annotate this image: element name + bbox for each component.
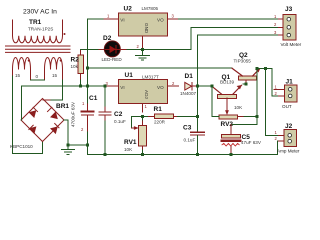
wire D1 cathode junction to RV2 left <box>198 86 220 116</box>
transistor Q1 BD139 <box>212 85 242 115</box>
capacitor C3 0.1uF <box>191 132 205 154</box>
wire output down to RV2 right and C5 <box>231 69 257 125</box>
svg-text:LED-RED: LED-RED <box>102 57 123 62</box>
regulator U1 LM317T <box>110 80 178 113</box>
resistor R1 220R <box>143 114 198 119</box>
wire secondary right 15 down to bridge top <box>50 80 63 100</box>
svg-text:1N4007: 1N4007 <box>180 91 197 96</box>
wire output rail to J3 pin3 <box>198 35 279 132</box>
svg-text:10K: 10K <box>124 147 133 152</box>
svg-text:Amp Meter: Amp Meter <box>277 149 300 154</box>
wire bottom ground rail <box>88 141 279 154</box>
wire bridge right corner to ground rail <box>64 120 88 145</box>
svg-text:10K: 10K <box>234 105 243 110</box>
svg-text:R2: R2 <box>71 57 80 64</box>
resistor R2 <box>78 49 84 86</box>
svg-text:TR1: TR1 <box>29 19 42 26</box>
wire bridge top stub <box>43 99 50 101</box>
wire Q1 emitter to Q2 base <box>243 83 246 85</box>
svg-text:VI: VI <box>120 18 124 23</box>
capacitor C1 4700uF <box>82 86 94 145</box>
capacitor C5 47uF <box>222 125 241 155</box>
svg-text:TIP3055: TIP3055 <box>234 59 252 64</box>
svg-text:47uF 63V: 47uF 63V <box>241 140 262 145</box>
svg-text:R1: R1 <box>154 106 163 113</box>
svg-text:LM7805: LM7805 <box>142 6 159 11</box>
connector J1 OUT <box>274 85 297 102</box>
svg-text:BR1: BR1 <box>56 103 69 110</box>
wire U2 VO to J3 pin1 <box>178 18 278 20</box>
svg-text:15: 15 <box>15 73 21 78</box>
diode BR1 bottom-right <box>51 127 57 133</box>
wire Q2 emitter to output <box>257 68 272 70</box>
wire gnd to J3 pin2 <box>143 27 279 49</box>
diode BR1 top-left <box>30 111 36 117</box>
svg-text:10k: 10k <box>71 64 79 69</box>
transistor Q2 TIP3055 <box>232 68 260 84</box>
potentiometer RV1 10K <box>131 116 146 154</box>
svg-text:D1: D1 <box>185 73 194 80</box>
wire center tap join <box>31 79 45 81</box>
bridge rectifier BR1 <box>21 99 64 142</box>
wire R2 top to LED <box>81 48 100 50</box>
wire long feed to Q2 collector <box>88 67 233 69</box>
connector J2 Amp Meter <box>278 129 296 146</box>
wire bridge left corner up to main rail <box>22 86 106 120</box>
svg-text:J1: J1 <box>286 79 294 86</box>
capacitor C2 0.1uF <box>99 86 111 154</box>
wire LED cathode to gnd junction <box>120 48 127 50</box>
svg-text:C3: C3 <box>183 125 192 132</box>
svg-text:LM317T: LM317T <box>142 75 159 80</box>
svg-text:OUT: OUT <box>282 104 292 109</box>
svg-text:0.1uF: 0.1uF <box>184 138 196 143</box>
diode BR1 top-right <box>51 112 57 118</box>
svg-text:U2: U2 <box>124 6 133 13</box>
wire emitter to J2 pin1 <box>266 69 279 136</box>
svg-text:J3: J3 <box>285 6 293 13</box>
ground symbol under U2 <box>136 49 150 60</box>
connector J3 Volt Meter <box>278 15 296 41</box>
diode D1 1N4007 <box>185 82 197 90</box>
svg-text:VO: VO <box>157 85 164 90</box>
regulator U2 LM7805 <box>104 13 178 48</box>
ground symbol under bridge <box>62 145 75 154</box>
svg-text:GND: GND <box>144 23 149 34</box>
svg-text:KBPC1010: KBPC1010 <box>10 144 33 149</box>
svg-text:TRAN-1P2S: TRAN-1P2S <box>28 27 53 32</box>
svg-text:U1: U1 <box>125 72 134 79</box>
svg-text:D2: D2 <box>103 35 112 42</box>
svg-text:Volt Meter: Volt Meter <box>281 42 302 47</box>
wire secondary left 15 down to bridge bottom <box>13 76 43 154</box>
svg-text:VO: VO <box>157 18 164 23</box>
transformer TR1 <box>6 20 71 80</box>
wire emitter to J1 pin2 <box>272 69 278 96</box>
svg-text:0: 0 <box>36 74 39 79</box>
potentiometer RV2 10K <box>212 115 257 119</box>
svg-text:4700uF 63V: 4700uF 63V <box>71 101 76 127</box>
svg-text:J2: J2 <box>285 123 293 130</box>
wire rail into U1 VI <box>105 85 110 87</box>
svg-text:VI: VI <box>120 85 124 90</box>
svg-text:230V AC In: 230V AC In <box>23 8 57 15</box>
svg-text:C2: C2 <box>114 111 123 118</box>
svg-text:BD139: BD139 <box>220 80 234 85</box>
svg-text:RV1: RV1 <box>124 139 137 146</box>
svg-text:0.1uF: 0.1uF <box>114 119 126 124</box>
wire U2 input riser <box>88 19 105 86</box>
svg-text:220R: 220R <box>154 120 166 125</box>
svg-text:C1: C1 <box>89 95 98 102</box>
svg-text:15: 15 <box>52 73 58 78</box>
diode BR1 bottom-left <box>29 127 35 133</box>
LED D2 <box>104 41 120 57</box>
svg-text:ADJ: ADJ <box>144 90 149 99</box>
